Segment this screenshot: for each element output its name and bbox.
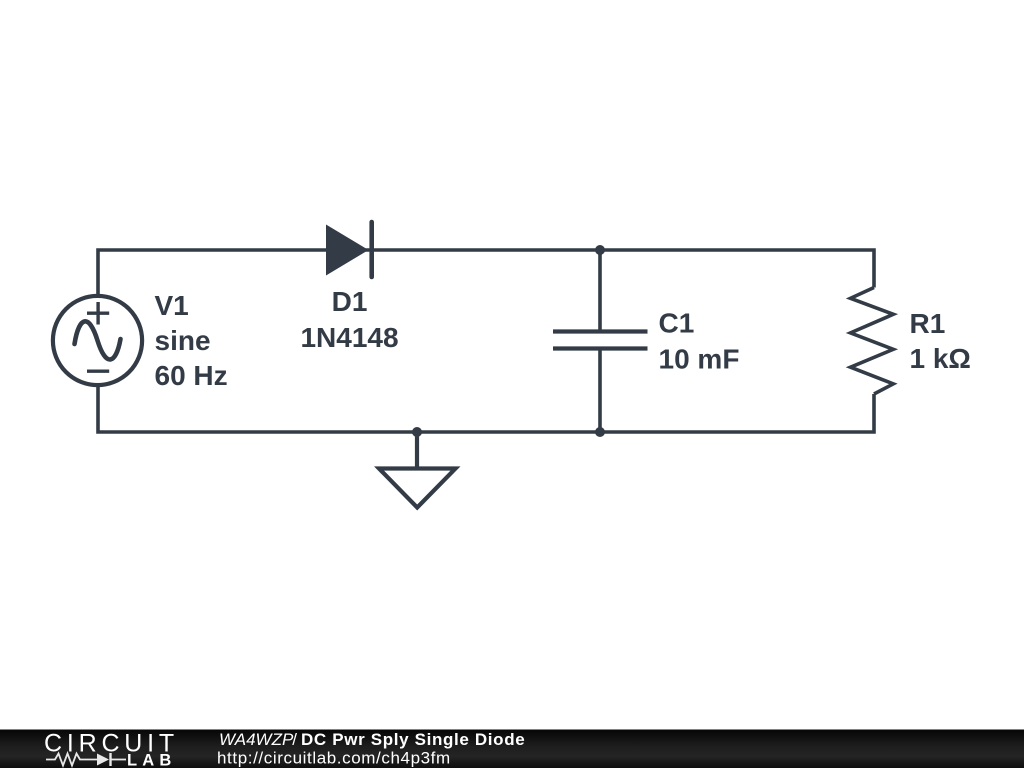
diode D1 — [326, 222, 372, 277]
svg-text:1N4148: 1N4148 — [300, 322, 398, 353]
footer bar — [0, 730, 1024, 768]
svg-text:/: / — [292, 730, 297, 749]
svg-text:sine: sine — [155, 325, 211, 356]
label C1 10 mF — [659, 308, 740, 375]
svg-text:60 Hz: 60 Hz — [155, 360, 228, 391]
svg-text:WA4WZP: WA4WZP — [219, 730, 294, 749]
label D1 1N4148 — [300, 286, 398, 353]
wire bottom loop (V1 bottom lead, bottom rail, R1 bottom lead) — [98, 387, 874, 433]
label V1 sine 60 Hz — [155, 290, 228, 391]
footer title: WA4WZP / DC Pwr Sply Single Diode — [219, 730, 525, 749]
svg-text:V1: V1 — [155, 290, 189, 321]
svg-text:C1: C1 — [659, 308, 695, 339]
svg-text:D1: D1 — [332, 286, 368, 317]
node junction dot (cap top) — [595, 245, 605, 255]
voltage source V1 — [53, 296, 142, 385]
svg-text:R1: R1 — [910, 308, 946, 339]
svg-text:10 mF: 10 mF — [659, 344, 740, 375]
capacitor C1 — [553, 250, 648, 432]
logo schematic flourish (resistor + diode) — [46, 754, 126, 766]
svg-text:1 kΩ: 1 kΩ — [910, 343, 971, 374]
label R1 1 kOhm — [910, 308, 971, 374]
node junction dot (cap bottom) — [595, 427, 605, 437]
wire top loop (V1 top lead, top rail, R1 top lead) — [98, 250, 874, 295]
svg-text:LAB: LAB — [127, 752, 177, 768]
svg-text:http://circuitlab.com/ch4p3fm: http://circuitlab.com/ch4p3fm — [217, 749, 451, 768]
ground — [379, 432, 456, 508]
svg-text:DC Pwr Sply Single Diode: DC Pwr Sply Single Diode — [301, 730, 525, 749]
resistor R1 — [851, 288, 894, 395]
node junction dot (ground tap) — [412, 427, 422, 437]
